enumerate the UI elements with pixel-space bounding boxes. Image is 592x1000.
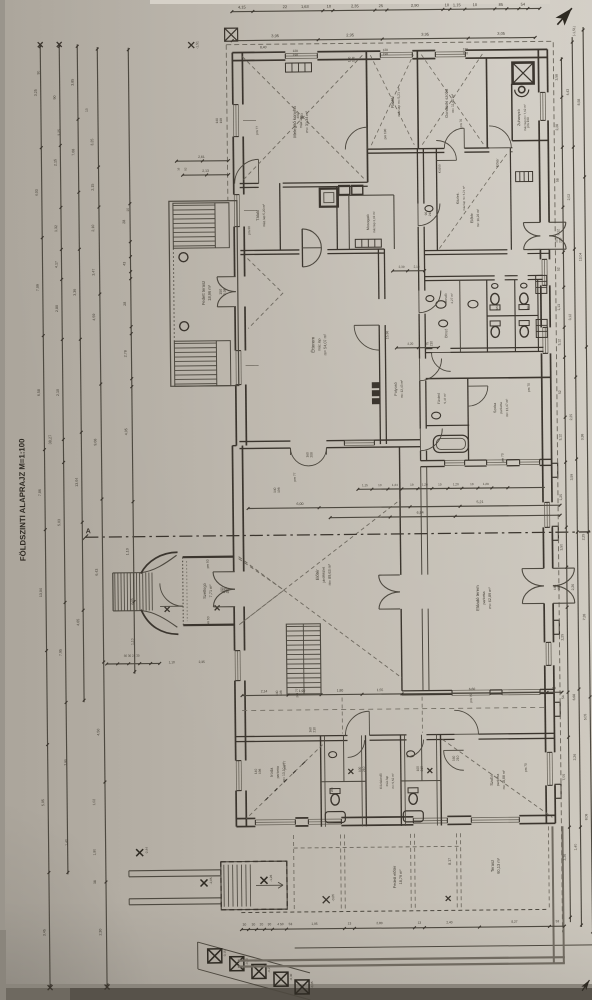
svg-text:210: 210 [456,755,460,761]
door corridor2 [419,290,441,312]
window [235,761,237,791]
svg-text:3,05: 3,05 [497,31,506,36]
svg-text:Előtér: Előtér [495,158,499,168]
small dim row left of hall [105,662,161,665]
wall mosogato east [393,195,396,249]
wall bottom block north [235,735,347,736]
window [546,752,548,785]
hall west entrance [213,571,235,573]
svg-text:m= 89,63 m²: m= 89,63 m² [328,563,332,585]
svg-text:WC: WC [526,304,530,310]
svg-text:54: 54 [561,695,565,699]
svg-text:7,09: 7,09 [36,284,40,291]
svg-text:13,04: 13,04 [75,478,79,487]
svg-text:3,25: 3,25 [34,89,38,96]
door wc left [348,740,365,757]
svg-text:4,05: 4,05 [124,428,128,435]
svg-text:30 30 24 30: 30 30 24 30 [124,654,140,658]
mosogato sink [339,185,350,194]
wall eloado south [402,689,452,692]
iroda diagonal [246,745,324,819]
svg-text:pm 70: pm 70 [501,453,505,462]
pilaster [553,620,559,634]
svg-text:3,12: 3,12 [556,229,560,236]
svg-text:1,25: 1,25 [559,494,563,501]
svg-text:2,35: 2,35 [351,3,360,8]
svg-text:7,08: 7,08 [71,149,75,156]
svg-text:Raktár: Raktár [390,95,395,108]
eloter16 diagonal [438,152,509,249]
svg-text:m= 62,89 m²: m= 62,89 m² [488,587,492,609]
exterior wall right [546,49,548,92]
svg-text:10: 10 [85,108,89,112]
window [542,327,544,353]
corridor dim row y695 [241,691,564,697]
wall wc south [425,352,432,354]
svg-text:(-1,51): (-1,51) [572,26,576,36]
svg-text:8,27: 8,27 [511,920,517,924]
bath tub [433,435,468,452]
survey markers row [208,949,222,963]
left dimension line 4 [96,47,109,987]
svg-text:13,04: 13,04 [578,253,582,262]
gondnoki diagonal 2 [421,54,483,145]
svg-text:13: 13 [418,921,422,925]
window [234,651,236,681]
wall kozlekedo east [399,735,402,826]
window [232,105,234,137]
svg-text:-2,44: -2,44 [145,847,149,854]
right dimension lines [560,57,572,922]
svg-text:198: 198 [219,118,223,124]
wall wc north [425,279,495,282]
svg-text:4,15: 4,15 [238,4,247,9]
svg-text:m= 5,52 m²: m= 5,52 m² [391,773,395,788]
wall wc west [486,280,489,352]
svg-text:3,58: 3,58 [555,74,559,81]
svg-text:30: 30 [268,922,272,926]
wall kitchen south [240,182,259,184]
wall etterem south [239,440,290,443]
svg-text:210: 210 [420,766,424,772]
wall bath north [426,424,469,426]
svg-text:FÖLDSZINTI ALAPRAJZ M=1:100: FÖLDSZINTI ALAPRAJZ M=1:100 [17,438,27,561]
wall bath east [467,378,470,460]
svg-text:3,95: 3,95 [421,32,430,37]
bottom wc fixtures right [408,788,418,805]
svg-text:4,43: 4,43 [566,89,570,96]
svg-text:-0,30: -0,30 [289,973,293,980]
svg-text:pm 50: pm 50 [206,559,210,568]
window [285,52,317,54]
level markers [136,849,143,856]
svg-text:7,28: 7,28 [582,614,586,621]
svg-text:m= 13,47 m²: m= 13,47 m² [505,399,509,417]
wc3 inner [420,735,422,781]
svg-text:10: 10 [470,482,474,486]
svg-text:Terasz: Terasz [490,860,495,872]
svg-text:m= 54,07 m²: m= 54,07 m² [323,333,327,355]
toilet [490,321,500,338]
window [344,439,374,441]
svg-text:máz.lap: máz.lap [385,775,389,786]
svg-text:6,68: 6,68 [572,694,576,701]
eloado window dims [356,486,544,491]
svg-text:19: 19 [410,483,414,487]
window [487,459,507,461]
exterior wall top [232,51,285,54]
wall gondnoki east [485,58,488,148]
svg-text:90: 90 [53,95,57,99]
svg-text:8,08: 8,08 [584,814,588,821]
svg-text:2,28: 2,28 [555,124,559,131]
wall serving east [336,187,339,250]
main stair in hall [286,624,321,694]
svg-text:6,60: 6,60 [469,687,476,691]
svg-text:1,02: 1,02 [92,799,96,806]
window [520,458,540,460]
svg-text:2,61: 2,61 [198,155,205,159]
svg-text:30: 30 [252,922,256,926]
svg-text:10: 10 [126,208,130,212]
svg-text:pm 77: pm 77 [295,688,299,697]
svg-text:Mosogató: Mosogató [366,214,370,230]
wall szoba west [439,735,442,826]
top light strip [150,0,550,4]
svg-text:60,13 m²: 60,13 m² [496,857,501,874]
svg-text:2,30: 2,30 [98,929,102,936]
svg-text:38: 38 [93,880,97,884]
svg-text:30: 30 [243,923,247,927]
svg-text:pm 70: pm 70 [469,694,473,703]
svg-text:6,00: 6,00 [297,502,304,506]
bottom right arrow marker [580,978,592,992]
svg-text:1,15: 1,15 [453,2,462,7]
wall zuhanyzo west [511,84,514,141]
svg-text:208: 208 [309,452,313,458]
terrace edge lines [295,945,592,948]
svg-text:pm 70: pm 70 [459,119,463,128]
svg-text:2,15: 2,15 [53,159,57,166]
bottom terrace dim row [240,925,566,931]
kitchen stove/fireplace [320,189,338,207]
bottom terrace dashed [294,846,459,848]
window [502,688,540,690]
svg-text:1,20: 1,20 [483,482,489,486]
svg-text:3,38: 3,38 [580,434,584,441]
wall eloter16 west [436,149,437,251]
door wc pre [431,352,450,371]
svg-text:198: 198 [293,53,299,57]
hall-eloado door [379,574,400,576]
svg-text:8,17: 8,17 [448,858,452,865]
svg-text:5,03: 5,03 [57,519,61,526]
svg-text:-0,05: -0,05 [331,894,335,902]
kitchen diagonal 1 [242,55,363,179]
left dimension line 5 [127,48,136,674]
Szelfogo vestibule [183,556,234,559]
svg-text:2,02: 2,02 [567,194,571,201]
svg-text:járófelület: járófelület [322,567,326,584]
left dimension line 3 [76,44,86,702]
svg-text:4,17: 4,17 [54,261,58,268]
svg-text:8,58: 8,58 [577,99,581,106]
svg-text:2,26: 2,26 [573,754,577,761]
svg-text:5,05: 5,05 [583,714,587,721]
szelfogo door arc [160,583,183,606]
hall v-mark [239,558,285,624]
svg-text:2,25: 2,25 [581,534,585,541]
svg-text:4 50: 4 50 [277,922,283,926]
svg-text:Étterem: Étterem [309,337,315,353]
svg-text:m= 16,22 m²: m= 16,22 m² [476,209,480,227]
pilaster [552,463,558,477]
svg-text:Tálaló: Tálaló [255,209,260,221]
svg-text:90: 90 [36,71,40,75]
door zuh [489,126,511,148]
wall step [232,445,236,447]
svg-text:pm 90: pm 90 [247,226,251,235]
svg-text:m= 11,60 m²: m= 11,60 m² [451,93,455,113]
svg-text:parketta: parketta [276,766,280,778]
svg-text:1,10: 1,10 [125,548,129,555]
svg-text:Előtér: Előtér [470,212,474,223]
svg-text:m= 13,10 m²: m= 13,10 m² [282,762,286,782]
small sink [492,283,498,288]
raktar diagonal [370,55,414,145]
wall wc mid [487,314,538,317]
trumpet entry stair [113,552,179,635]
svg-text:3,85: 3,85 [71,79,75,86]
top dimension line 2 [231,36,537,42]
svg-text:Közlekedő: Közlekedő [379,773,383,789]
svg-text:máz.lap: máz.lap [299,116,303,129]
svg-text:WC: WC [330,786,334,792]
toilet [490,293,500,310]
svg-text:4,03: 4,03 [35,189,39,196]
etterem v-mark [247,258,283,328]
svg-text:210: 210 [428,211,432,217]
exterior wall bottom [236,825,255,827]
door kitchen [345,127,367,149]
svg-text:1,32: 1,32 [54,225,58,232]
svg-text:4,50: 4,50 [96,729,100,736]
svg-text:3,59: 3,59 [570,474,574,481]
gondnoki diagonal [421,54,483,145]
svg-text:6,84: 6,84 [417,511,424,515]
svg-text:6,43: 6,43 [95,569,99,576]
svg-text:52: 52 [557,267,561,271]
svg-text:5,05: 5,05 [41,799,45,806]
svg-text:-0,15: -0,15 [223,950,227,957]
pilaster [552,526,558,540]
svg-text:1,90: 1,90 [299,689,306,693]
wall y252 [424,249,507,252]
door szoba [444,750,464,770]
wall-hung basins corridor [425,206,433,212]
svg-text:52: 52 [558,390,562,394]
corridor east wall [416,149,419,204]
svg-text:Szoba: Szoba [489,773,494,785]
eloado east door [553,567,575,569]
svg-text:92: 92 [184,167,188,171]
corridor dashed projections [242,707,547,710]
door corridor up1 [454,710,478,734]
svg-text:máz.lap 5,20 m²: máz.lap 5,20 m² [262,204,266,227]
svg-text:2,90: 2,90 [411,3,420,8]
svg-text:pm 70: pm 70 [524,763,528,772]
survey marker band [198,941,310,974]
svg-text:Fedett előtér: Fedett előtér [392,865,397,888]
svg-text:198: 198 [258,768,262,774]
svg-text:210: 210 [312,727,316,733]
door corridor up2 [345,711,369,735]
svg-text:2,10: 2,10 [414,265,420,269]
svg-text:198: 198 [277,487,281,493]
svg-text:1,10: 1,10 [169,660,175,664]
svg-text:2,35: 2,35 [130,598,134,605]
serving counter arcs [302,229,321,267]
svg-text:2,15: 2,15 [91,184,95,191]
svg-text:7,71 m²: 7,71 m² [209,584,213,598]
svg-text:3,12: 3,12 [557,339,561,346]
porch french door [217,276,236,278]
svg-text:198: 198 [351,56,355,62]
left dimension line 1 [39,45,52,988]
svg-text:3,45: 3,45 [42,929,46,936]
svg-text:198: 198 [383,52,389,56]
svg-text:2,27 m²: 2,27 m² [450,293,454,303]
kitchen diagonal 2 [242,55,363,179]
overhang left [226,45,228,201]
electric panel squares [372,382,380,404]
svg-text:1,40: 1,40 [574,844,578,851]
svg-text:206: 206 [226,588,230,594]
svg-text:7,86: 7,86 [38,489,42,496]
svg-text:2,25: 2,25 [560,634,564,641]
svg-text:3,50: 3,50 [559,544,563,551]
window [445,459,465,461]
svg-text:máz.lap 3,33 m²: máz.lap 3,33 m² [372,211,376,233]
svg-text:pm 77: pm 77 [255,126,259,135]
svg-text:13: 13 [378,483,382,487]
svg-text:1,10: 1,10 [130,638,134,645]
svg-text:2,39: 2,39 [399,265,405,269]
svg-text:1,20: 1,20 [422,483,428,487]
outdoor stair dashed box [221,861,287,910]
wc3 partition [401,779,441,781]
svg-text:3,25: 3,25 [90,139,94,146]
svg-text:pm 70: pm 70 [527,383,531,392]
svg-text:pm 50: pm 50 [206,616,210,625]
level mark [165,607,170,612]
svg-text:210: 210 [429,341,433,347]
svg-text:Fürdető: Fürdető [437,393,441,405]
svg-text:1,13: 1,13 [557,304,561,311]
svg-text:WC: WC [495,305,499,311]
svg-text:2,80: 2,80 [376,921,382,925]
wall mosogato west [348,195,351,249]
svg-text:Fedett terasz: Fedett terasz [201,281,206,306]
svg-text:Köztér: Köztér [437,163,441,173]
left dimension line 2 [58,44,69,874]
window [452,689,490,691]
raktar diagonal 2 [370,55,414,145]
svg-text:15,36: 15,36 [385,331,389,340]
door etterem side [354,325,379,350]
svg-text:1,63: 1,63 [301,4,310,9]
exterior wall left upper [231,53,234,105]
svg-text:3,47: 3,47 [92,269,96,276]
svg-text:3,25: 3,25 [57,129,61,136]
svg-text:13: 13 [348,921,352,925]
svg-text:13,04: 13,04 [39,588,43,597]
window [541,259,543,285]
svg-text:38,27: 38,27 [48,435,52,445]
window [471,816,519,819]
svg-text:198: 198 [463,51,469,55]
leader [244,209,257,211]
svg-text:2,20: 2,20 [407,342,413,346]
svg-text:máz.lap m= 5,21 m²: máz.lap m= 5,21 m² [462,186,466,211]
wall iroda east [319,736,322,827]
svg-text:Szélfogó: Szélfogó [202,582,207,598]
svg-text:2,40: 2,40 [446,920,452,924]
wall eloter16 east [510,148,511,250]
door szoba13 arc [468,386,488,406]
svg-text:2,25: 2,25 [569,414,573,421]
svg-text:-1,51: -1,51 [195,41,199,49]
small sink [521,283,527,288]
window [435,51,465,53]
svg-text:pm 190: pm 190 [383,128,387,139]
svg-text:6,58: 6,58 [37,389,41,396]
basin oltozo [439,320,448,327]
svg-text:20: 20 [260,922,264,926]
bottom wc fixtures left [330,789,340,806]
svg-text:7,95: 7,95 [59,649,63,656]
svg-text:18,96 m²: 18,96 m² [207,284,212,301]
basin [468,300,478,308]
svg-text:Folyosó: Folyosó [394,382,398,395]
svg-text:1,90: 1,90 [93,849,97,856]
svg-text:2,80: 2,80 [55,305,59,312]
pilaster [554,702,560,716]
middle dimension row above section [247,504,562,510]
window [413,817,447,819]
svg-text:1,24: 1,24 [392,483,398,487]
hall diagonal 1 [239,555,402,680]
svg-text:198: 198 [279,690,283,696]
svg-text:máz.lap: máz.lap [317,338,321,351]
level marker top left [188,42,194,48]
wall mosogato north [337,194,394,197]
wall raktar east [417,51,418,149]
toilet [519,321,529,338]
radiator [355,239,381,247]
level mark [215,605,220,610]
svg-text:43: 43 [122,262,126,266]
toilet [519,293,529,310]
basin [436,301,446,309]
wall wc east [537,279,540,351]
svg-text:53: 53 [289,922,293,926]
szoba diagonal [443,738,553,818]
svg-text:Iroda: Iroda [269,767,274,777]
svg-text:205: 205 [557,584,561,590]
svg-text:Előadó terem: Előadó terem [475,585,480,611]
wall wc2 east [364,735,367,826]
